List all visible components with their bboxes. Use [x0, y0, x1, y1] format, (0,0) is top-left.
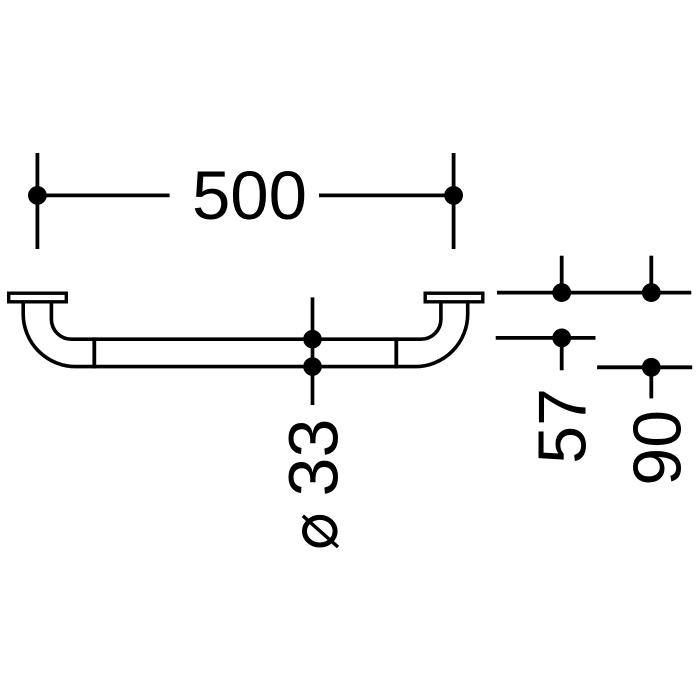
svg-text:90: 90 [619, 410, 695, 486]
dimension 500: left extension tick [36, 153, 40, 249]
grab bar: right wall flange [425, 293, 483, 302]
dimension 500: left node dot [28, 186, 47, 205]
dimension Ø33: diameter symbol circle [305, 517, 336, 545]
svg-text:57: 57 [525, 388, 601, 464]
dimension row1: left node dot [552, 283, 571, 302]
dimension 90: tick down [649, 367, 653, 398]
dimension row1: right node dot [642, 283, 661, 302]
dimension 90: node dot [642, 358, 661, 377]
dimension 500: right node dot [444, 186, 463, 205]
grab bar: left wall flange [9, 293, 67, 302]
dimension row1: left node tick up [560, 256, 564, 293]
dimension 90: horizontal line [597, 365, 692, 369]
dimension 57: horizontal line [496, 336, 596, 340]
dimension 57: node dot [552, 329, 571, 348]
grab bar: tube inner outline [51, 303, 441, 340]
dimension Ø33: diameter symbol slash [303, 516, 338, 547]
svg-text:500: 500 [192, 157, 307, 234]
dimension row1: right node tick up [649, 256, 653, 293]
grab bar: right weld joint tick [394, 337, 398, 368]
grab bar: left weld joint tick [92, 337, 96, 368]
dimension row1 (wall line): horizontal line [497, 291, 691, 295]
dimension Ø33: upper node dot (tube top line) [303, 330, 322, 349]
dimension 500: left horizontal dimension line [37, 193, 169, 197]
dimension 500: right horizontal dimension line [319, 193, 454, 197]
dimension Ø33: vertical leader line [311, 297, 315, 405]
grab bar: tube outer outline [23, 303, 468, 367]
svg-text:33: 33 [275, 419, 353, 497]
dimension Ø33: lower node dot (tube bottom line) [303, 357, 322, 376]
dimension 57: tick down [560, 338, 564, 370]
dimension 500: right extension tick [452, 153, 456, 249]
